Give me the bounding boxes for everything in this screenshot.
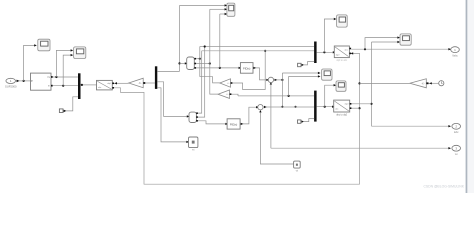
wire into demux D1 xyxy=(180,62,186,64)
node branch to Scope1 xyxy=(23,80,25,82)
output port oval Out2 xyxy=(452,123,461,134)
wire M3 out to transform B1 xyxy=(317,51,334,53)
wire D1 out3 to PID1 xyxy=(196,67,239,69)
mux M3 xyxy=(314,42,317,64)
T1 right port nubs xyxy=(112,83,114,85)
demux D1 (rounded 3-out) xyxy=(187,57,195,70)
svg-text:abc to dq0: abc to dq0 xyxy=(336,114,347,117)
wire D1 out1 to vertical bus1 riser xyxy=(196,58,200,60)
wire B1 abc out to Out1 (long) xyxy=(351,48,450,50)
wire subsystem out1 to mux M1 xyxy=(53,76,78,78)
riser to Scope4 xyxy=(324,19,334,52)
wire D1 out2 to riser x209.8 xyxy=(196,63,210,65)
wire ground G1 to mux M1 xyxy=(66,97,78,111)
svg-text:-K-: -K- xyxy=(138,82,141,85)
wire In1 to subsystem xyxy=(16,80,31,82)
wire B2 wt port to wt net xyxy=(351,107,359,109)
wire ground G2 to M3 xyxy=(304,62,314,65)
scope Scope5 xyxy=(400,34,411,45)
vertical riser x200 (bus1 / triangle1 chain) xyxy=(199,47,201,77)
wire D2 out2 riser to bus1 xyxy=(198,47,205,118)
wire top to Scope3 in1 xyxy=(180,4,226,6)
output port oval Out1 xyxy=(451,47,460,58)
node wt joins T2 lower port xyxy=(358,107,360,109)
svg-text:Vabc: Vabc xyxy=(452,53,458,57)
svg-text:SUP2000: SUP2000 xyxy=(5,84,17,88)
sum S2 bottom feed from output3 line xyxy=(270,83,272,149)
gain triangle K3 (left pointing) xyxy=(218,90,230,98)
PID controller PID1 xyxy=(240,63,253,74)
bus2 horizontal to mux M3 xyxy=(202,50,314,52)
clock CLK xyxy=(439,81,444,86)
wire D2 out3 to PID2 xyxy=(198,121,226,124)
gain triangle K2 (left pointing) xyxy=(220,79,231,87)
riser x209.8 from scope3-in2 down to triangle2 apex wire xyxy=(210,9,218,94)
window edge vertical line xyxy=(466,0,468,193)
wire mux M1 out to transform T1 xyxy=(81,84,97,86)
subsystem output port nubs xyxy=(51,76,53,78)
svg-text:wt: wt xyxy=(455,152,458,156)
riser x365 to Scope5 in1 xyxy=(365,38,398,50)
wireA to demux M4 xyxy=(238,95,314,97)
wire to output port Out2 xyxy=(372,125,450,127)
block wt1 (small source) xyxy=(189,137,198,152)
scope Scope1 xyxy=(38,39,50,51)
svg-text:labc: labc xyxy=(454,130,459,134)
node to Scope2 in2 xyxy=(62,85,64,87)
wire K3 input jog to wireA xyxy=(231,94,238,96)
svg-text:wt: wt xyxy=(192,149,195,152)
PID controller PID2 xyxy=(227,119,240,129)
scope Scope3 xyxy=(227,3,235,16)
demux M2 xyxy=(155,66,157,89)
vertical from scope3 feed down to D1 input xyxy=(179,6,181,72)
ground G3 xyxy=(298,120,305,123)
wire PID2 out to sum S1 xyxy=(240,107,257,124)
right margin shading xyxy=(468,0,474,193)
wire K2 input from bus riser x265 xyxy=(232,51,265,90)
wire B2 dq0 out to riser x371.5 xyxy=(351,103,371,105)
ground G1 xyxy=(59,109,66,113)
transform block T1 dq0-to-abc (flipped) xyxy=(97,80,113,90)
scope Scope4 xyxy=(337,15,348,27)
scope Scope2 xyxy=(74,47,86,59)
wire M4 out to transform B2 xyxy=(317,106,333,108)
wire D2 out1 riser to bus2 xyxy=(198,51,202,113)
wire M2 out3 down to block wt1 xyxy=(157,88,187,142)
svg-text:PID(s): PID(s) xyxy=(230,122,237,126)
svg-text:wt: wt xyxy=(296,170,299,173)
scope Scope6 xyxy=(322,69,332,80)
riser x282.4 scope6-in1 / wireB xyxy=(281,73,283,107)
svg-text:-K-: -K- xyxy=(227,83,230,85)
wire S1 bottom input from block wt2 xyxy=(260,111,293,164)
svg-text:m: m xyxy=(48,85,50,88)
bus1 horizontal to mux M3 xyxy=(200,46,314,48)
svg-text:dq0 to abc: dq0 to abc xyxy=(336,59,348,62)
triangle1 output chain xyxy=(200,77,220,83)
output port oval Out3 xyxy=(452,145,461,156)
sum S2 xyxy=(268,77,273,82)
sum S1 xyxy=(258,105,263,110)
wire up to Scope1 xyxy=(24,45,36,81)
wire PID1 out to sum S2 xyxy=(253,68,267,80)
wire K4 out to wt net xyxy=(360,82,410,84)
gain K1 (left pointing) xyxy=(129,78,144,88)
wire gain K1 output to T1 xyxy=(114,82,129,84)
scope Scope7 xyxy=(336,81,346,91)
svg-text:-K-: -K- xyxy=(421,82,424,85)
svg-text:CSDN @BLOG-SIMULINK: CSDN @BLOG-SIMULINK xyxy=(423,185,464,189)
wire M2 out1 right and up to demux D1 area xyxy=(157,70,179,72)
riser x371.5 Scope5 in2 / Out2 chain xyxy=(371,42,373,126)
transform block B1 dq0-to-abc xyxy=(334,46,349,62)
wire clock to K4 xyxy=(429,82,439,84)
wire to output port Out3 xyxy=(271,147,450,149)
wire S1 out (wireB) to demux M4 xyxy=(263,106,314,108)
wire S2 out to node xyxy=(274,79,283,81)
riser x288.6 scope6-in2 / wireA xyxy=(288,76,290,96)
node wt joins gain2 output xyxy=(358,82,360,84)
svg-text:PID(s): PID(s) xyxy=(243,66,250,70)
wire subsystem out2 to mux M1 xyxy=(53,85,78,87)
ground G2 xyxy=(298,63,305,66)
transform block B2 abc-to-dq0 xyxy=(334,100,350,117)
input port oval In1 xyxy=(5,78,17,88)
riser x220.3 up to scope3 in2 xyxy=(219,14,221,68)
block wt2 (small source) xyxy=(294,161,301,173)
node to Scope2 in1 xyxy=(55,76,57,78)
mux M4 xyxy=(314,91,317,122)
wire demux M2 to gain K1 xyxy=(145,82,155,84)
demux D2 (rounded 3-out) xyxy=(189,112,196,122)
mux M1 xyxy=(78,73,81,99)
gain K4 (left pointing, from clock) xyxy=(410,79,427,88)
wt wire from T1 lower port down and right (long bottom run) xyxy=(114,53,360,184)
subsystem block xyxy=(31,73,52,90)
wire ground G3 to M4 xyxy=(304,119,314,122)
wire up to Scope2 in1 xyxy=(56,50,71,77)
svg-text:-K-: -K- xyxy=(226,94,229,96)
arrowhead into wire xyxy=(17,80,20,83)
riser to Scope7 xyxy=(325,85,335,107)
wire up to Scope2 in2 xyxy=(63,55,71,86)
wire M2 out2 down to demux D2 xyxy=(157,82,187,117)
